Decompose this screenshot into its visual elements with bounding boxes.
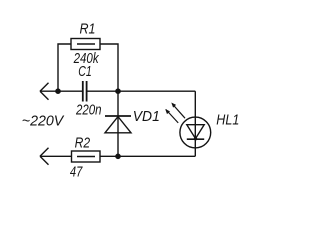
svg-text:C1: C1: [78, 64, 92, 80]
svg-text:R2: R2: [75, 136, 91, 152]
svg-text:VD1: VD1: [133, 109, 160, 125]
svg-text:47: 47: [70, 164, 83, 180]
svg-text:R1: R1: [80, 21, 96, 37]
svg-text:~220V: ~220V: [22, 113, 65, 129]
svg-text:220n: 220n: [75, 103, 101, 119]
svg-text:HL1: HL1: [216, 113, 239, 129]
